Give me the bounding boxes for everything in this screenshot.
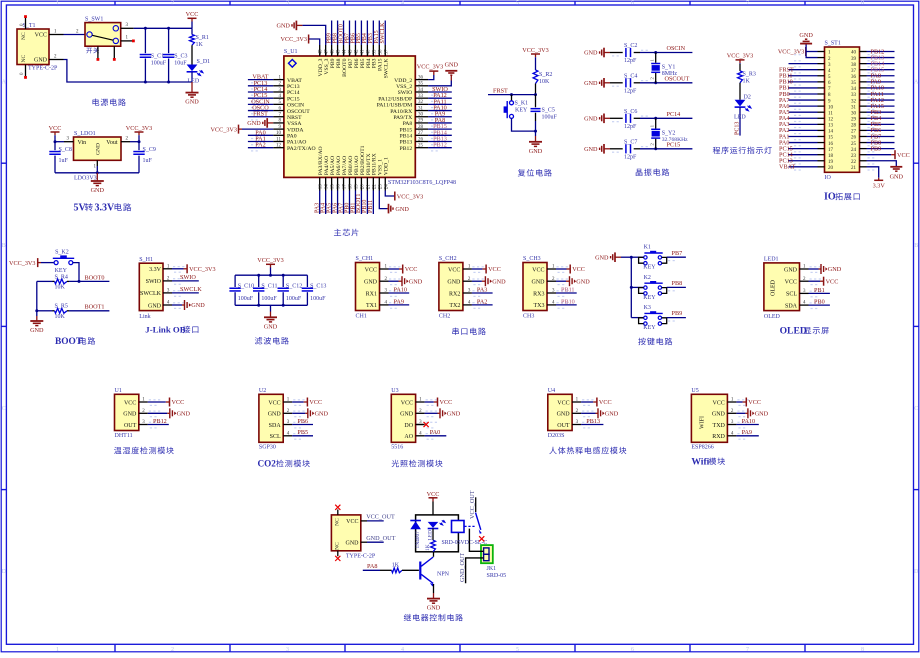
svg-text:OLED: OLED [764, 314, 781, 320]
svg-text:1uF: 1uF [59, 158, 69, 164]
connector H1 J-Link [139, 257, 184, 320]
svg-text:PA8: PA8 [403, 121, 413, 127]
svg-text:2: 2 [171, 1, 174, 7]
pushbutton K1 KEY [504, 95, 529, 119]
svg-text:37: 37 [851, 69, 857, 74]
svg-text:12pF: 12pF [624, 124, 637, 130]
U1 right pin names and numbers [377, 75, 429, 151]
label IO拓展口 [824, 192, 860, 203]
svg-text:S_C11: S_C11 [261, 283, 277, 289]
svg-text:26: 26 [851, 136, 857, 141]
svg-text:GND_OUT: GND_OUT [459, 553, 466, 582]
label 程序运行指示灯 [713, 147, 772, 154]
svg-text:14: 14 [325, 184, 330, 190]
svg-text:VCC: VCC [713, 400, 725, 406]
svg-text:GND: GND [799, 32, 813, 39]
power VCC_3V3 at U1 pin24 VDD_1 [385, 191, 423, 201]
svg-text:GND: GND [529, 148, 543, 155]
svg-text:ESP8266: ESP8266 [691, 445, 713, 451]
resistor R5 10K and net BOOT1 [37, 304, 110, 320]
crystal Y2 32.768KHz [650, 118, 689, 149]
svg-text:GND: GND [185, 99, 199, 106]
svg-text:36: 36 [418, 75, 424, 80]
svg-text:OLED: OLED [771, 279, 777, 296]
svg-text:36: 36 [851, 75, 857, 80]
svg-text:3: 3 [286, 647, 289, 653]
power flag VCC_3V3 ldo output [126, 125, 152, 142]
LED inside relay box [427, 520, 445, 541]
svg-text:VCC_3V3: VCC_3V3 [778, 49, 804, 56]
svg-text:GND: GND [268, 412, 282, 418]
wire K2 to BOOT0 row [73, 263, 81, 283]
U1 top pin names and numbers [318, 45, 390, 78]
svg-text:7: 7 [746, 1, 749, 7]
ground at CH1 [389, 276, 423, 286]
svg-text:VCC: VCC [309, 399, 322, 406]
svg-text:CH1: CH1 [356, 313, 367, 319]
svg-text:GND: GND [427, 605, 441, 612]
svg-text:TYPE-C-2P: TYPE-C-2P [346, 554, 376, 560]
net PB1 wire OLED SCL [809, 287, 830, 294]
LED D2 run indicator [734, 95, 751, 121]
svg-text:VCC: VCC [532, 267, 544, 273]
power VCC_3V3 at H1 pin1 [172, 264, 216, 273]
svg-text:D2: D2 [744, 95, 751, 101]
svg-text:VCC_3V3: VCC_3V3 [257, 257, 283, 264]
svg-text:Vin: Vin [78, 140, 87, 146]
svg-text:PB0: PB0 [814, 299, 825, 306]
svg-text:47: 47 [325, 49, 330, 55]
svg-text:KEY: KEY [643, 295, 656, 301]
capacitor C3 10uF [163, 28, 188, 82]
svg-text:PC15: PC15 [287, 96, 300, 102]
svg-text:39: 39 [372, 49, 377, 55]
svg-text:S_C12: S_C12 [286, 283, 302, 289]
svg-text:VCC_OUT: VCC_OUT [366, 514, 395, 521]
capacitor C10 100uF filter [229, 275, 254, 305]
module U2 SGP30 [259, 388, 305, 451]
svg-text:S_C1: S_C1 [151, 54, 164, 60]
ground at U3 [425, 408, 461, 418]
ground GND power circuit [185, 82, 199, 106]
ground GND reset [529, 130, 543, 155]
svg-text:Vout: Vout [106, 140, 118, 146]
svg-text:32: 32 [851, 99, 857, 104]
resistor R3 1K [738, 64, 756, 100]
svg-text:10uF: 10uF [174, 60, 187, 66]
svg-text:PB9: PB9 [871, 145, 882, 152]
svg-text:CO2: CO2 [258, 459, 277, 469]
svg-text:35: 35 [418, 82, 424, 87]
svg-text:S_C2: S_C2 [624, 43, 637, 49]
connector JK1 SRD-05 [481, 545, 506, 579]
svg-text:16: 16 [828, 142, 834, 147]
svg-text:S_C4: S_C4 [624, 73, 637, 79]
label 复位电路 [518, 169, 552, 177]
label 光照检测模块 [392, 460, 443, 467]
svg-text:4: 4 [401, 647, 404, 653]
capacitor C6 12pF and net PC14 [584, 109, 692, 130]
svg-text:GND: GND [784, 267, 798, 273]
svg-text:GND: GND [492, 278, 506, 285]
display LED1 OLED [764, 257, 821, 320]
svg-text:PA10: PA10 [742, 418, 756, 425]
svg-text:GND: GND [828, 266, 842, 273]
U1 top net wires and rotated labels [326, 21, 386, 46]
label 电源电路 [93, 98, 126, 105]
key K1 and net PB7 [631, 245, 686, 271]
svg-text:A: A [2, 80, 7, 86]
svg-text:17: 17 [343, 184, 348, 190]
svg-text:SGP30: SGP30 [259, 445, 276, 451]
capacitor C11 100uF filter [253, 275, 278, 305]
capacitor C4 12pF and net OSCOUT [584, 73, 692, 94]
LED D1 [187, 59, 211, 84]
svg-text:38: 38 [378, 49, 383, 55]
ST1 left net wires and labels [779, 64, 818, 171]
net PA9 wire U5 [736, 429, 758, 436]
svg-text:GND: GND [123, 412, 137, 418]
svg-text:SRD-05: SRD-05 [487, 573, 507, 579]
svg-text:41: 41 [360, 49, 365, 55]
svg-text:1K: 1K [196, 42, 204, 48]
wire switch pin3 to VCC rail [121, 23, 192, 30]
svg-text:RX2: RX2 [449, 291, 460, 297]
net PA2 wire CH2 [472, 298, 493, 305]
wire T1 GND pin2 to bottom rail [49, 54, 145, 82]
svg-text:PB15: PB15 [400, 127, 413, 133]
svg-text:VCC: VCC [826, 278, 839, 285]
svg-text:S_LDO1: S_LDO1 [74, 131, 96, 137]
svg-text:GND: GND [247, 120, 261, 127]
svg-text:PB12: PB12 [153, 418, 167, 425]
svg-text:B: B [2, 243, 6, 249]
svg-text:32: 32 [418, 100, 424, 105]
wire T1 VCC pin1 to switch [49, 29, 85, 34]
svg-text:S_ST1: S_ST1 [825, 41, 841, 47]
keys ground rail [621, 256, 633, 318]
svg-text:30: 30 [418, 113, 424, 118]
label 晶振电路 [636, 168, 670, 175]
svg-text:GND: GND [584, 146, 598, 153]
svg-text:3.3V: 3.3V [873, 183, 886, 190]
svg-text:40: 40 [366, 49, 371, 55]
svg-text:3.3V: 3.3V [95, 203, 116, 214]
svg-text:GND: GND [712, 412, 726, 418]
svg-text:S_R5: S_R5 [55, 304, 68, 310]
svg-text:VCC_3V3: VCC_3V3 [417, 64, 443, 71]
resistor R2 10K [533, 58, 552, 95]
svg-text:PB9: PB9 [672, 310, 683, 317]
svg-text:KEY: KEY [55, 268, 68, 274]
connector T1 TYPE-C-2P [17, 23, 58, 71]
svg-text:OUT: OUT [124, 423, 137, 429]
svg-text:D: D [914, 569, 919, 575]
svg-text:U5: U5 [691, 388, 698, 394]
svg-text:VBAT: VBAT [779, 164, 795, 171]
microcontroller U1 STM32F103C8T6 [284, 49, 456, 186]
wire boot vertical rail [35, 281, 38, 316]
svg-text:37: 37 [384, 49, 389, 55]
svg-text:S_CH2: S_CH2 [439, 256, 457, 262]
svg-text:U3: U3 [391, 388, 398, 394]
svg-text:24: 24 [851, 148, 857, 153]
power VCC at U1 [148, 398, 184, 407]
svg-text:VCC: VCC [186, 11, 199, 18]
svg-text:PB12: PB12 [400, 146, 413, 152]
svg-text:FRST: FRST [253, 111, 268, 118]
svg-text:28: 28 [851, 124, 857, 129]
power VCC_3V3 at U1 pin36 VDD_2 [417, 64, 443, 80]
net PB6 wire U2 [292, 418, 313, 425]
svg-text:100uF: 100uF [286, 296, 302, 302]
svg-text:K1: K1 [644, 245, 651, 251]
svg-text:PA0: PA0 [430, 429, 440, 436]
svg-text:GND: GND [191, 302, 205, 309]
svg-text:10: 10 [828, 105, 834, 110]
key K2 and net PB8 [631, 275, 686, 301]
svg-text:GND: GND [276, 23, 290, 30]
svg-text:34: 34 [418, 88, 424, 93]
svg-text:S_R3: S_R3 [743, 72, 756, 78]
svg-text:5: 5 [516, 1, 519, 7]
bottom rail and junctions [144, 81, 192, 84]
svg-text:J-Link OB: J-Link OB [145, 325, 185, 335]
svg-text:GND: GND [177, 411, 191, 418]
svg-text:CH2: CH2 [439, 313, 450, 319]
svg-text:PB13: PB13 [400, 140, 413, 146]
svg-text:KEY: KEY [515, 107, 528, 113]
svg-text:GND: GND [34, 58, 48, 64]
svg-text:TYPE-C-2P: TYPE-C-2P [28, 65, 58, 71]
power VCC_3V3 at ST1 pin1 [778, 47, 818, 56]
svg-text:NPN: NPN [437, 572, 450, 578]
svg-text:TX3: TX3 [534, 303, 545, 309]
no-connect at U3 DO pin [416, 422, 429, 427]
svg-text:100uF: 100uF [151, 60, 167, 66]
svg-text:D203S: D203S [548, 433, 565, 439]
svg-text:8MHz: 8MHz [662, 71, 678, 77]
svg-text:VCC: VCC [785, 280, 797, 286]
svg-text:VSSA: VSSA [287, 121, 302, 127]
svg-text:OLED: OLED [780, 326, 807, 337]
capacitor C7 12pF and net PC15 [584, 139, 692, 160]
svg-text:5V: 5V [74, 203, 87, 214]
svg-text:PB7: PB7 [672, 250, 683, 257]
svg-text:1K: 1K [743, 79, 751, 85]
svg-text:BOOT1: BOOT1 [85, 304, 105, 311]
svg-text:VCC: VCC [448, 267, 460, 273]
svg-text:TX2: TX2 [449, 303, 460, 309]
svg-text:34: 34 [851, 87, 857, 92]
svg-text:42: 42 [354, 49, 359, 55]
svg-text:5516: 5516 [391, 445, 403, 451]
label 按键电路 [638, 338, 672, 346]
svg-text:21: 21 [851, 166, 857, 171]
svg-text:15: 15 [331, 184, 336, 190]
svg-text:20: 20 [828, 166, 834, 171]
svg-text:25: 25 [851, 142, 857, 147]
svg-text:11: 11 [276, 137, 281, 142]
net PA9 wire CH1 [389, 298, 410, 305]
svg-text:PC13: PC13 [735, 122, 741, 135]
U1 right net wires and labels [428, 86, 452, 151]
net PB0 wire OLED SDA [809, 299, 830, 306]
svg-text:GND: GND [264, 323, 278, 330]
svg-text:GND: GND [447, 411, 461, 418]
svg-text:27: 27 [418, 131, 424, 136]
svg-text:VCC: VCC [427, 491, 440, 498]
net PA0 wire U3 [425, 429, 447, 436]
svg-text:13: 13 [828, 124, 834, 129]
filter bottom rail [235, 304, 307, 307]
power flag VCC [186, 11, 199, 28]
svg-text:19: 19 [354, 184, 359, 190]
power flag VCC ldo input [49, 125, 62, 142]
svg-text:AO: AO [404, 434, 413, 440]
svg-text:VCC: VCC [401, 400, 413, 406]
ground at OLED pin1 [809, 264, 842, 274]
power VCC at U5 [736, 398, 761, 407]
svg-text:21: 21 [366, 184, 371, 190]
svg-text:46: 46 [331, 49, 336, 55]
net GND_OUT rotated at JK1 [459, 553, 466, 582]
svg-text:RX1: RX1 [366, 291, 377, 297]
module U1 DHT11 [115, 388, 161, 439]
svg-text:PA2: PA2 [477, 298, 487, 305]
resistor R1 1K [190, 28, 209, 64]
svg-text:VCC: VCC [488, 266, 501, 273]
svg-text:30: 30 [851, 111, 857, 116]
wire JK1 to GND_OUT [466, 558, 484, 583]
label 人体热释电感应模块 [549, 447, 626, 454]
svg-text:PB8: PB8 [672, 280, 683, 287]
crystal Y1 8MHz [650, 53, 678, 83]
svg-text:100uF: 100uF [261, 296, 277, 302]
label BOOT电路 [55, 337, 95, 347]
wire LED D2 to net PC13 [735, 107, 741, 135]
svg-text:6: 6 [631, 1, 634, 7]
svg-text:LED: LED [188, 78, 200, 84]
svg-text:SWCLK: SWCLK [384, 58, 390, 79]
svg-text:PC14: PC14 [287, 90, 300, 96]
svg-text:PA10: PA10 [394, 286, 408, 293]
capacitor C13 100uF filter [302, 275, 327, 305]
svg-text:26: 26 [418, 137, 424, 142]
svg-text:IO: IO [824, 192, 836, 203]
svg-text:22: 22 [372, 184, 377, 190]
ground at U1 pin35 VSS_2 [428, 61, 458, 85]
connector CH3 serial [523, 256, 568, 319]
svg-text:15: 15 [828, 136, 834, 141]
svg-text:GND: GND [395, 206, 409, 213]
svg-text:GND: GND [96, 143, 102, 155]
svg-text:PB13: PB13 [586, 418, 600, 425]
svg-text:WIFI: WIFI [700, 416, 706, 429]
U1 left net wires and labels [248, 74, 273, 151]
svg-text:CH3: CH3 [523, 313, 534, 319]
svg-text:S_R2: S_R2 [539, 72, 552, 78]
label Wifi模块 [691, 456, 725, 467]
svg-text:VSS_2: VSS_2 [396, 84, 412, 90]
svg-text:12: 12 [276, 143, 282, 148]
module U3 5516 [391, 388, 437, 451]
power VCC at OLED pin2 [809, 277, 839, 286]
svg-text:S_K1: S_K1 [515, 101, 529, 107]
svg-text:S_U1: S_U1 [284, 49, 298, 55]
svg-text:PC13: PC13 [287, 84, 300, 90]
power flag VCC_3V3 run led [727, 53, 753, 64]
svg-text:PA1/AO: PA1/AO [287, 140, 306, 146]
svg-text:14: 14 [828, 130, 834, 135]
wire key K1 to ground rail [512, 118, 536, 131]
svg-text:GND: GND [91, 187, 105, 194]
svg-text:U4: U4 [548, 388, 555, 394]
svg-text:PA8: PA8 [367, 563, 377, 570]
connector T2 TYPE-C-2P relay [331, 515, 375, 560]
ground GND boot [30, 316, 44, 334]
svg-text:31: 31 [851, 105, 857, 110]
svg-text:1K: 1K [425, 544, 431, 551]
svg-text:TXD: TXD [713, 423, 726, 429]
svg-text:PB14: PB14 [400, 134, 413, 140]
svg-text:PB10: PB10 [561, 298, 575, 305]
svg-text:SWIO: SWIO [398, 90, 413, 96]
power flag VCC_3V3 filter [257, 257, 283, 275]
capacitor C2 12pF and net OSCIN [584, 43, 692, 64]
filter top rail [235, 274, 307, 277]
svg-text:GND: GND [584, 80, 598, 87]
ground at ST1 pin22 [867, 161, 904, 181]
svg-text:1K: 1K [392, 562, 400, 568]
svg-text:U2: U2 [259, 388, 266, 394]
svg-text:4: 4 [401, 1, 404, 7]
power VCC at CH2 [472, 265, 501, 274]
svg-text:23: 23 [851, 154, 857, 159]
svg-text:S_H1: S_H1 [139, 257, 153, 263]
power flag VCC relay [427, 491, 440, 515]
svg-text:1: 1 [56, 1, 59, 7]
svg-text:K2: K2 [644, 275, 651, 281]
svg-text:SCL: SCL [786, 292, 797, 298]
svg-text:GND: GND [364, 280, 378, 286]
svg-text:7: 7 [746, 647, 749, 653]
svg-text:S_C10: S_C10 [238, 283, 254, 289]
T2 top pin no-connect [335, 505, 340, 515]
svg-text:SWCLK: SWCLK [140, 291, 162, 297]
svg-text:28: 28 [418, 125, 424, 130]
resistor 1K inside relay box [425, 529, 436, 552]
svg-text:33: 33 [418, 94, 424, 99]
capacitor C12 100uF filter [278, 275, 303, 305]
svg-text:DO: DO [404, 423, 413, 429]
svg-text:29: 29 [418, 119, 424, 124]
pin 0 top of T1 [20, 15, 27, 29]
svg-text:OSCIN: OSCIN [667, 45, 686, 52]
svg-text:GND_OUT: GND_OUT [366, 535, 395, 542]
connector ST1 IO header [794, 41, 874, 182]
svg-text:FRST: FRST [493, 88, 508, 95]
net SWCLK wire [172, 286, 202, 293]
svg-text:IO: IO [825, 175, 832, 181]
svg-text:PB11: PB11 [561, 286, 575, 293]
label 5V转3.3V电路 [74, 203, 132, 214]
svg-text:DHT11: DHT11 [115, 433, 133, 439]
svg-text:VCC: VCC [748, 399, 761, 406]
net SWIO wire [172, 274, 199, 281]
svg-text:VCC: VCC [897, 152, 910, 159]
svg-text:44: 44 [343, 49, 348, 55]
